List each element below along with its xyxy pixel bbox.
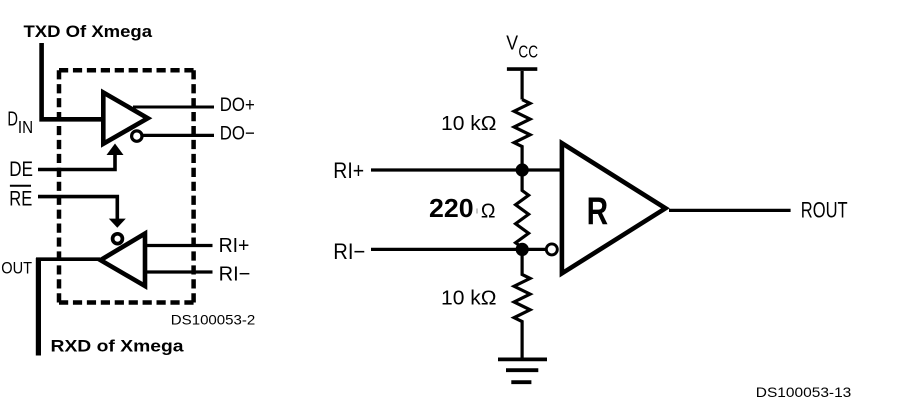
svg-text:IN: IN	[18, 117, 33, 137]
dashed box transceiver left edge	[57, 70, 62, 302]
resistor R3 10k lower	[514, 249, 530, 357]
wire RI+ left	[147, 244, 213, 247]
svg-text:RI+: RI+	[333, 158, 364, 183]
arrowhead DE enable	[107, 144, 124, 156]
svg-text:RXD of Xmega: RXD of Xmega	[51, 338, 185, 356]
junction node RI-	[516, 243, 529, 256]
svg-text:DE: DE	[9, 157, 33, 181]
svg-text:10 kΩ: 10 kΩ	[441, 113, 497, 135]
svg-text:DS100053-2: DS100053-2	[171, 311, 256, 327]
svg-text:RI−: RI−	[219, 263, 251, 286]
ground	[498, 359, 547, 382]
wire RXD vertical	[36, 258, 41, 356]
svg-text:TXD Of Xmega: TXD Of Xmega	[24, 23, 154, 41]
svg-text:CC: CC	[518, 42, 538, 62]
svg-text:Ω: Ω	[481, 201, 496, 223]
svg-text:V: V	[506, 33, 518, 55]
svg-text:ROUT: ROUT	[801, 198, 848, 223]
svg-text:RE: RE	[9, 186, 32, 210]
wire RE	[38, 197, 117, 219]
receiver buffer triangle	[101, 234, 146, 287]
bubble receiver inverting input	[546, 244, 557, 255]
arrowhead RE enable	[109, 219, 126, 228]
resistor R1 10k upper	[514, 100, 530, 171]
dashed box transceiver top edge	[59, 68, 194, 73]
wire DO+	[133, 106, 214, 109]
resistor R2 220 middle	[516, 176, 529, 250]
svg-text:RI+: RI+	[219, 234, 250, 257]
wire DE	[38, 154, 115, 170]
receiver R triangle	[562, 143, 666, 273]
wire ROUT right	[669, 209, 791, 212]
wire TXD vertical into DIN	[42, 43, 105, 119]
dashed box transceiver bottom edge	[59, 300, 194, 305]
power VCC bar	[507, 67, 537, 71]
wire VCC to R1	[520, 71, 523, 100]
wire RI+ right	[371, 168, 560, 171]
svg-text:DS100053-13: DS100053-13	[756, 384, 852, 400]
label RE overline	[10, 185, 31, 187]
svg-text:220: 220	[429, 193, 474, 223]
wire RI- right	[371, 248, 545, 251]
svg-text:DO−: DO−	[220, 124, 255, 145]
wire DO-	[143, 134, 214, 137]
svg-text:10 kΩ: 10 kΩ	[441, 287, 497, 309]
driver buffer triangle	[103, 93, 148, 144]
bubble driver inverted output	[132, 131, 142, 141]
svg-text:R: R	[587, 190, 609, 233]
svg-text:RI−: RI−	[333, 239, 365, 264]
wire ROUT to receiver apex	[36, 257, 100, 261]
dashed box transceiver right edge	[191, 70, 196, 302]
svg-text:DO+: DO+	[220, 95, 255, 116]
bubble receiver enable	[113, 234, 123, 244]
svg-text:D: D	[7, 109, 18, 131]
junction node RI+	[516, 163, 529, 176]
svg-text:OUT: OUT	[1, 259, 32, 278]
wire RI- left	[147, 270, 213, 273]
